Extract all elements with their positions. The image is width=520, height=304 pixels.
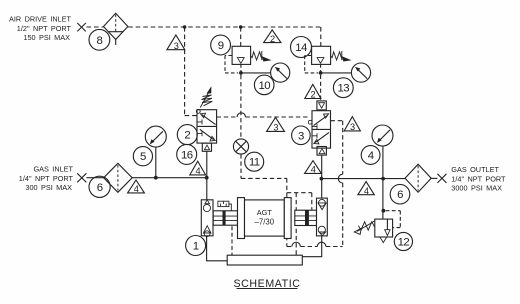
svg-text:4: 4 bbox=[195, 166, 200, 176]
wire: pilot V2 to V3 dashed with hop bbox=[217, 116, 311, 118]
text: GAS OUTLET labels bbox=[451, 165, 506, 193]
circle label 1 bbox=[186, 236, 206, 256]
valve V3 body bbox=[312, 111, 331, 148]
pump P1 right check block bbox=[317, 198, 328, 236]
svg-text:14: 14 bbox=[295, 42, 307, 54]
wire: pilot from valve 11 down and right dashed bbox=[241, 154, 312, 255]
svg-text:9: 9 bbox=[218, 40, 224, 52]
wire: inlet gas line bbox=[132, 177, 207, 179]
port X air drive inlet bbox=[77, 23, 86, 31]
triangle label 3 middle bbox=[267, 117, 285, 132]
circle label 5 bbox=[133, 147, 152, 166]
node: junction dot gauge5 tap bbox=[154, 176, 158, 180]
wire: dashed vertical into regulator U14 bbox=[320, 27, 322, 46]
node: junction dot valve V2 drop bbox=[205, 176, 209, 180]
wire: hop arcs on bottom dashed run bbox=[292, 242, 301, 246]
text: GAS INLET labels bbox=[19, 165, 74, 193]
wire: dashed drain under left barrel bbox=[231, 226, 233, 255]
circle label 11 bbox=[245, 152, 264, 171]
valve V3 pilot circle bbox=[308, 120, 312, 124]
underline of title bbox=[237, 288, 298, 290]
regulator U14 body bbox=[312, 46, 331, 71]
node: junction dot V3 drop on outlet line bbox=[320, 177, 324, 181]
circle label 2 bbox=[177, 125, 197, 145]
svg-text:6: 6 bbox=[397, 189, 403, 201]
valve V2 pilot circle bbox=[196, 110, 200, 114]
wire: relief 12 pilot dashed loop bbox=[386, 211, 401, 228]
wire: left block to base bbox=[207, 236, 228, 261]
triangle label 3 top-left bbox=[167, 35, 185, 51]
pump P1 left check block bbox=[201, 200, 213, 237]
wire: dashed vertical into regulator U9 bbox=[240, 27, 242, 46]
svg-text:3000 PSI MAX: 3000 PSI MAX bbox=[451, 184, 502, 193]
circle label 6 inlet bbox=[89, 176, 110, 197]
circle label 4 outlet bbox=[361, 146, 380, 165]
svg-text:GAS OUTLET: GAS OUTLET bbox=[451, 165, 499, 174]
svg-text:3: 3 bbox=[298, 130, 304, 142]
wire: V3 right pilot dashed bbox=[331, 120, 343, 122]
gauge G13 bbox=[351, 63, 370, 82]
circle label 14 bbox=[291, 37, 312, 58]
wire: to gauge G13 bbox=[322, 72, 351, 74]
relief valve 12 body bbox=[375, 219, 393, 242]
valve V2 body bbox=[197, 110, 217, 143]
svg-text:4: 4 bbox=[364, 186, 369, 196]
circle label 9 bbox=[211, 35, 231, 55]
wire: outlet gas line bbox=[321, 178, 405, 180]
wire: dashed from U14 junction down to V3 exhaust bbox=[320, 75, 322, 101]
text: SCHEMATIC title bbox=[233, 278, 300, 290]
svg-text:AGT: AGT bbox=[257, 208, 273, 217]
svg-text:2: 2 bbox=[184, 130, 190, 142]
pump P1 vent box bbox=[218, 201, 231, 211]
circle label 16 bbox=[177, 144, 197, 164]
wire: hop arc over outlet line bbox=[338, 174, 342, 183]
triangle label 2 above valve V3 bbox=[305, 84, 321, 99]
node: junction dot top line B bbox=[239, 25, 243, 29]
svg-text:2: 2 bbox=[270, 34, 275, 44]
svg-text:2: 2 bbox=[311, 90, 316, 100]
filter F8 diamond bbox=[104, 13, 128, 45]
port X gas outlet bbox=[437, 174, 446, 183]
circle label 3 bbox=[292, 126, 311, 145]
wire: to gauge G10 bbox=[243, 72, 271, 74]
spring of U9 bbox=[251, 51, 270, 61]
svg-text:4: 4 bbox=[134, 184, 139, 194]
svg-text:13: 13 bbox=[338, 83, 350, 95]
pump base plate bbox=[227, 255, 302, 265]
wire: right block to base bbox=[302, 236, 321, 257]
pump P1 left cap bbox=[238, 198, 245, 239]
wire: hop over vertical at x241 bbox=[237, 113, 245, 117]
triangle label 4 at inlet bbox=[128, 180, 145, 194]
circle label 12 bbox=[394, 232, 412, 250]
spring of relief 12 bbox=[354, 221, 375, 235]
node: junction dot under U9 bbox=[239, 71, 243, 75]
wire: dashed vertical to valve V2 pilot bbox=[185, 27, 197, 116]
pump P1 left barrel bbox=[213, 211, 237, 225]
circle label 6 outlet bbox=[390, 184, 410, 204]
pump P1 right barrel bbox=[295, 210, 317, 225]
circle label 10 bbox=[254, 75, 274, 95]
svg-text:1/2" NPT PORT: 1/2" NPT PORT bbox=[17, 24, 72, 33]
svg-text:3: 3 bbox=[350, 122, 355, 132]
wire: outlet line to port bbox=[431, 177, 437, 179]
node: junction dot under U14 bbox=[319, 71, 323, 75]
svg-text:1/4" NPT PORT: 1/4" NPT PORT bbox=[19, 174, 74, 183]
svg-text:11: 11 bbox=[249, 157, 260, 169]
svg-text:3: 3 bbox=[273, 123, 278, 133]
circle label 8 bbox=[89, 29, 110, 50]
svg-text:12: 12 bbox=[398, 237, 410, 249]
svg-text:10: 10 bbox=[258, 80, 270, 92]
valve V2 exhaust box bottom bbox=[202, 143, 211, 151]
valve V2 spring (top) bbox=[200, 88, 212, 108]
svg-text:4: 4 bbox=[368, 150, 374, 162]
node: junction dot top line A bbox=[183, 25, 187, 29]
valve V3 exhaust box bottom bbox=[317, 147, 326, 156]
node: junction dot relief tap bbox=[382, 209, 386, 213]
shutoff valve 11 circle-X bbox=[233, 139, 248, 154]
svg-text:4: 4 bbox=[311, 165, 316, 175]
gauge G5 bbox=[145, 126, 166, 147]
text: AIR DRIVE INLET labels bbox=[9, 15, 72, 42]
svg-text:150 PSI MAX: 150 PSI MAX bbox=[23, 33, 70, 42]
svg-text:16: 16 bbox=[181, 149, 193, 161]
wire: inlet line to filter bbox=[87, 177, 104, 179]
svg-text:3: 3 bbox=[174, 41, 179, 51]
wire: V2 drop line to gas line bbox=[206, 151, 208, 200]
wire: pilot down right side with hop over gas line bbox=[342, 121, 344, 247]
svg-text:GAS INLET: GAS INLET bbox=[33, 165, 73, 174]
triangle label 4 outlet bbox=[358, 182, 374, 196]
spring of U14 bbox=[331, 51, 350, 61]
wire: V3 drop to gas outlet line bbox=[321, 155, 323, 198]
wire: top air line dashed bbox=[87, 26, 321, 28]
svg-text:6: 6 bbox=[97, 182, 103, 194]
triangle label 2 top bbox=[264, 30, 281, 44]
wire: dashed from U9 junction to valve 11 bbox=[240, 75, 242, 139]
pump P1 body bbox=[245, 200, 285, 236]
filter F6 outlet diamond bbox=[405, 164, 431, 192]
svg-text:300 PSI MAX: 300 PSI MAX bbox=[25, 183, 72, 192]
gauge G10 bbox=[271, 63, 290, 82]
filter F6 inlet diamond bbox=[104, 163, 133, 192]
svg-text:8: 8 bbox=[97, 35, 103, 47]
wire: bottom dashed run with two hops bbox=[287, 246, 343, 248]
svg-text:–7/30: –7/30 bbox=[255, 218, 275, 227]
svg-text:AIR DRIVE INLET: AIR DRIVE INLET bbox=[9, 15, 72, 24]
text: AGT -7/30 bbox=[255, 208, 275, 227]
triangle label 4 under V3 bbox=[305, 161, 322, 175]
wire: pilot loop U14 dashed bbox=[305, 56, 318, 73]
wire: riser gauge G4 down to relief 12 bbox=[382, 146, 384, 219]
wire: riser to gauge G5 bbox=[155, 147, 157, 178]
svg-text:5: 5 bbox=[140, 151, 146, 163]
triangle label 3 right of V3 bbox=[344, 117, 360, 133]
node: junction dot gauge4 tap bbox=[381, 177, 385, 181]
svg-text:1/4" NPT PORT: 1/4" NPT PORT bbox=[451, 174, 506, 183]
port X gas inlet bbox=[77, 173, 86, 182]
triangle label 4 at valve V2 bbox=[190, 161, 206, 176]
svg-text:1: 1 bbox=[193, 241, 199, 253]
wire: pilot loop U9 dashed bbox=[225, 56, 238, 73]
pump P1 right cap bbox=[284, 198, 291, 239]
valve V3 exhaust box top bbox=[317, 101, 326, 110]
regulator U9 body bbox=[232, 46, 251, 71]
gauge G4 bbox=[372, 125, 393, 146]
circle label 13 bbox=[333, 78, 353, 98]
